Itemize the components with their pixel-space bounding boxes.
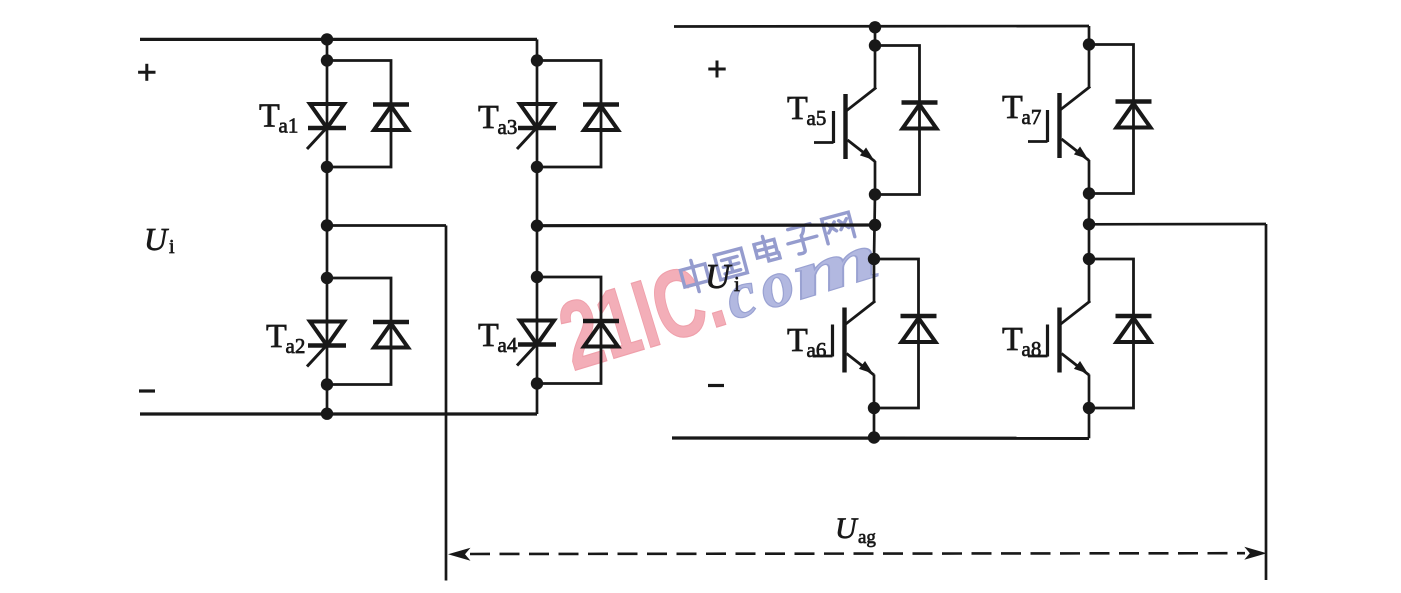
- svg-text:a8: a8: [1022, 337, 1042, 361]
- svg-text:T: T: [266, 318, 287, 355]
- svg-text:i: i: [734, 272, 740, 296]
- svg-text:U: U: [144, 221, 169, 257]
- svg-text:a2: a2: [286, 334, 306, 358]
- svg-text:U: U: [835, 512, 859, 545]
- svg-text:a7: a7: [1022, 105, 1042, 129]
- svg-text:a6: a6: [807, 338, 827, 362]
- svg-text:a1: a1: [279, 114, 299, 138]
- svg-text:T: T: [787, 90, 808, 127]
- svg-text:a3: a3: [498, 115, 518, 139]
- svg-text:i: i: [169, 236, 175, 258]
- svg-text:T: T: [259, 98, 280, 135]
- svg-text:ag: ag: [858, 527, 876, 548]
- svg-text:a4: a4: [498, 333, 518, 357]
- svg-text:U: U: [705, 257, 733, 296]
- svg-text:T: T: [478, 99, 499, 136]
- svg-text:T: T: [1002, 89, 1023, 126]
- svg-text:T: T: [1002, 321, 1023, 358]
- svg-text:a5: a5: [807, 106, 827, 130]
- svg-text:T: T: [787, 322, 808, 359]
- svg-text:T: T: [478, 317, 499, 354]
